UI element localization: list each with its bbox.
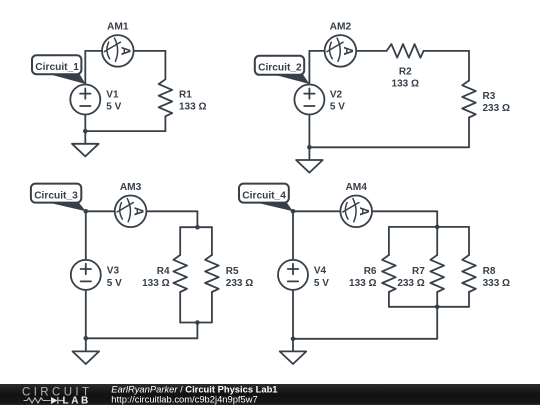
ammeter AM4	[340, 196, 372, 228]
voltage source V4	[278, 260, 308, 290]
svg-text:R4: R4	[157, 266, 170, 277]
ammeter AM1	[102, 35, 134, 67]
ground C3	[73, 351, 100, 364]
resistor R2	[387, 44, 424, 58]
ground C1	[72, 144, 99, 157]
wire right C2 lower	[468, 118, 470, 148]
callout Circuit_1	[32, 55, 86, 84]
svg-text:R6: R6	[364, 266, 377, 277]
node C3 rail bottom	[195, 320, 200, 325]
wire left C4	[292, 211, 294, 260]
wire top C4	[293, 210, 437, 212]
wire bottom rail C4	[389, 306, 469, 308]
svg-text:133 Ω: 133 Ω	[179, 102, 206, 113]
node C3 rail top	[195, 225, 200, 230]
wire bottom C3	[86, 337, 198, 339]
svg-text:R5: R5	[226, 266, 239, 277]
node C4 rail top	[435, 225, 440, 230]
resistor R8	[462, 255, 476, 292]
callout Circuit_3	[31, 184, 86, 212]
wire right C2 upper	[468, 51, 470, 81]
svg-text:Circuit_4: Circuit_4	[242, 191, 286, 202]
svg-text:333 Ω: 333 Ω	[483, 278, 510, 289]
svg-text:A: A	[357, 207, 371, 216]
svg-text:133 Ω: 133 Ω	[142, 278, 169, 289]
wire bottom C4	[293, 338, 437, 340]
svg-text:133 Ω: 133 Ω	[392, 79, 419, 90]
svg-text:R1: R1	[179, 90, 192, 101]
resistor R4	[173, 255, 187, 292]
wire branch R8 lower	[468, 292, 470, 307]
svg-text:LAB: LAB	[63, 396, 91, 405]
wire bottom rail C3	[180, 322, 212, 324]
svg-text:A: A	[119, 46, 133, 55]
wire top C1	[85, 50, 165, 52]
wire top rail C3	[180, 226, 212, 228]
node C3 bottom-left	[84, 336, 89, 341]
voltage source V2	[294, 85, 324, 115]
resistor R5	[205, 255, 219, 292]
wire top C3	[86, 210, 198, 212]
svg-text:V3: V3	[107, 266, 120, 277]
node C2 bottom	[307, 145, 312, 150]
ammeter AM3	[115, 196, 147, 228]
node C1 bottom	[83, 129, 88, 134]
svg-text:Circuit_2: Circuit_2	[258, 63, 302, 74]
svg-text:V4: V4	[314, 266, 327, 277]
resistor R1	[159, 79, 173, 116]
wire branch R8 upper	[468, 227, 470, 255]
svg-text:R7: R7	[412, 266, 425, 277]
wire V4 bottom to ground	[292, 290, 294, 352]
wire right C1 upper	[164, 51, 166, 79]
svg-text:5 V: 5 V	[314, 278, 329, 289]
wire right C3 down to rail	[196, 211, 198, 227]
wire V1 bottom to ground	[84, 115, 86, 144]
svg-text:AM2: AM2	[330, 22, 352, 33]
svg-text:5 V: 5 V	[330, 102, 345, 113]
ground C2	[296, 160, 323, 173]
wire right C4 down to rail	[436, 211, 438, 227]
wire stem C4	[436, 307, 438, 339]
svg-text:5 V: 5 V	[106, 102, 121, 113]
node C4 rail bottom	[435, 305, 440, 310]
wire stem C3	[196, 323, 198, 339]
svg-text:V2: V2	[330, 90, 343, 101]
resistor R3	[462, 81, 476, 118]
svg-text:233 Ω: 233 Ω	[226, 278, 253, 289]
wire bottom C1	[85, 130, 165, 132]
logo resistor zigzag	[24, 398, 51, 403]
svg-text:Circuit_1: Circuit_1	[35, 62, 79, 73]
svg-text:233 Ω: 233 Ω	[397, 278, 424, 289]
svg-text:A: A	[341, 46, 355, 55]
resistor R7	[430, 255, 444, 292]
wire branch R7 upper	[436, 227, 438, 255]
wire top C2 right	[424, 50, 469, 52]
resistor R6	[382, 255, 396, 292]
wire left C2	[308, 51, 310, 85]
node C3 top-left	[84, 209, 89, 214]
wire top C2 left	[309, 50, 386, 52]
logo diode bar and wire	[58, 397, 64, 404]
svg-text:A: A	[131, 207, 145, 216]
wire branch R6 lower	[388, 292, 390, 307]
svg-text:R8: R8	[483, 266, 496, 277]
callout Circuit_4	[239, 184, 293, 212]
wire V3 bottom to ground	[85, 290, 87, 352]
ground C4	[280, 351, 307, 364]
svg-text:AM1: AM1	[107, 22, 129, 33]
node C4 top-left	[291, 209, 296, 214]
svg-text:V1: V1	[106, 90, 119, 101]
wire branch R6 upper	[388, 227, 390, 255]
wire branch R5 lower	[211, 292, 213, 323]
svg-text:Circuit_3: Circuit_3	[34, 191, 78, 202]
wire V2 bottom to ground	[308, 115, 310, 161]
wire branch R4 lower	[179, 292, 181, 323]
svg-text:http://circuitlab.com/c9b2j4n9: http://circuitlab.com/c9b2j4n9pf5w7	[111, 394, 257, 405]
svg-text:5 V: 5 V	[107, 278, 122, 289]
ammeter AM2	[325, 35, 357, 67]
svg-text:R2: R2	[399, 67, 412, 78]
wire bottom C2	[309, 146, 469, 148]
callout Circuit_2	[255, 56, 310, 84]
footer bar	[0, 384, 540, 405]
logo diode	[51, 397, 58, 404]
node C4 bottom-left	[291, 337, 296, 342]
voltage source V3	[71, 260, 101, 290]
voltage source V1	[70, 85, 100, 115]
svg-text:133 Ω: 133 Ω	[349, 278, 376, 289]
svg-text:R3: R3	[483, 91, 496, 102]
wire branch R7 lower	[436, 292, 438, 307]
wire branch R5 upper	[211, 227, 213, 255]
wire right C1 lower	[164, 116, 166, 131]
svg-text:AM3: AM3	[120, 182, 142, 193]
svg-text:AM4: AM4	[345, 182, 367, 193]
wire left C1	[84, 51, 86, 85]
wire left C3	[85, 211, 87, 260]
wire branch R4 upper	[179, 227, 181, 255]
wire top rail C4	[389, 226, 469, 228]
svg-text:233 Ω: 233 Ω	[483, 103, 510, 114]
